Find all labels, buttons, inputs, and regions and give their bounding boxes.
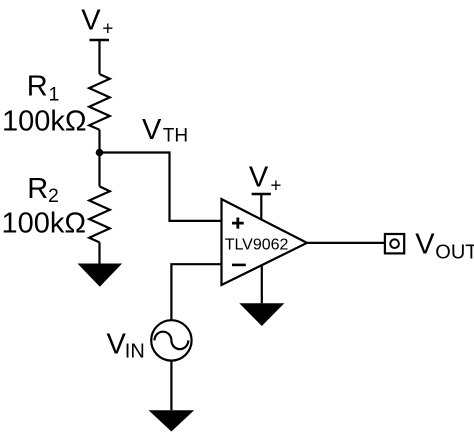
wire V+ bar into op-amp top: [260, 194, 262, 225]
wire op-amp to ground: [261, 260, 263, 303]
wire top rail to R1: [98, 40, 100, 74]
svg-text:R: R: [27, 173, 48, 205]
wire R1 to R2 through node: [98, 130, 100, 187]
wire VIN to op-amp - input: [171, 264, 221, 321]
svg-text:IN: IN: [125, 340, 145, 362]
svg-text:100kΩ: 100kΩ: [2, 207, 87, 239]
svg-text:TLV9062: TLV9062: [225, 236, 289, 253]
svg-text:+: +: [102, 18, 113, 39]
resistor R1: [89, 74, 110, 130]
node VTH junction dot: [96, 149, 104, 157]
svg-text:V: V: [142, 114, 162, 146]
wire R2 to ground: [98, 242, 100, 263]
svg-text:V: V: [81, 5, 101, 37]
VOUT port (square with circle): [385, 234, 404, 253]
wire op-amp output to VOUT port: [307, 242, 385, 244]
svg-text:V: V: [107, 329, 127, 361]
svg-text:V: V: [249, 161, 269, 193]
svg-text:+: +: [270, 175, 281, 196]
svg-text:100kΩ: 100kΩ: [2, 106, 87, 138]
op-amp U1 TLV9062: [222, 199, 308, 285]
label VIN: [107, 329, 145, 363]
power symbol V+ (top rail): [81, 5, 113, 40]
svg-text:V: V: [415, 228, 435, 260]
wire VIN to ground: [170, 360, 172, 410]
label VTH: [142, 114, 188, 147]
ground (below VIN): [149, 410, 195, 431]
ground (below op-amp): [239, 303, 284, 326]
svg-text:TH: TH: [163, 126, 188, 147]
wire node to op-amp + input (VTH net): [100, 153, 222, 221]
ground (below R2): [78, 264, 123, 287]
resistor R2: [89, 186, 110, 242]
label R1: [27, 70, 60, 105]
svg-text:OUT: OUT: [435, 242, 474, 264]
svg-text:R: R: [27, 70, 48, 102]
svg-text:1: 1: [49, 83, 60, 105]
svg-text:2: 2: [48, 185, 59, 207]
label VOUT: [415, 228, 474, 263]
power symbol V+ (op-amp supply): [249, 161, 282, 196]
label R2: [27, 173, 59, 207]
voltage source VIN: [151, 320, 191, 360]
